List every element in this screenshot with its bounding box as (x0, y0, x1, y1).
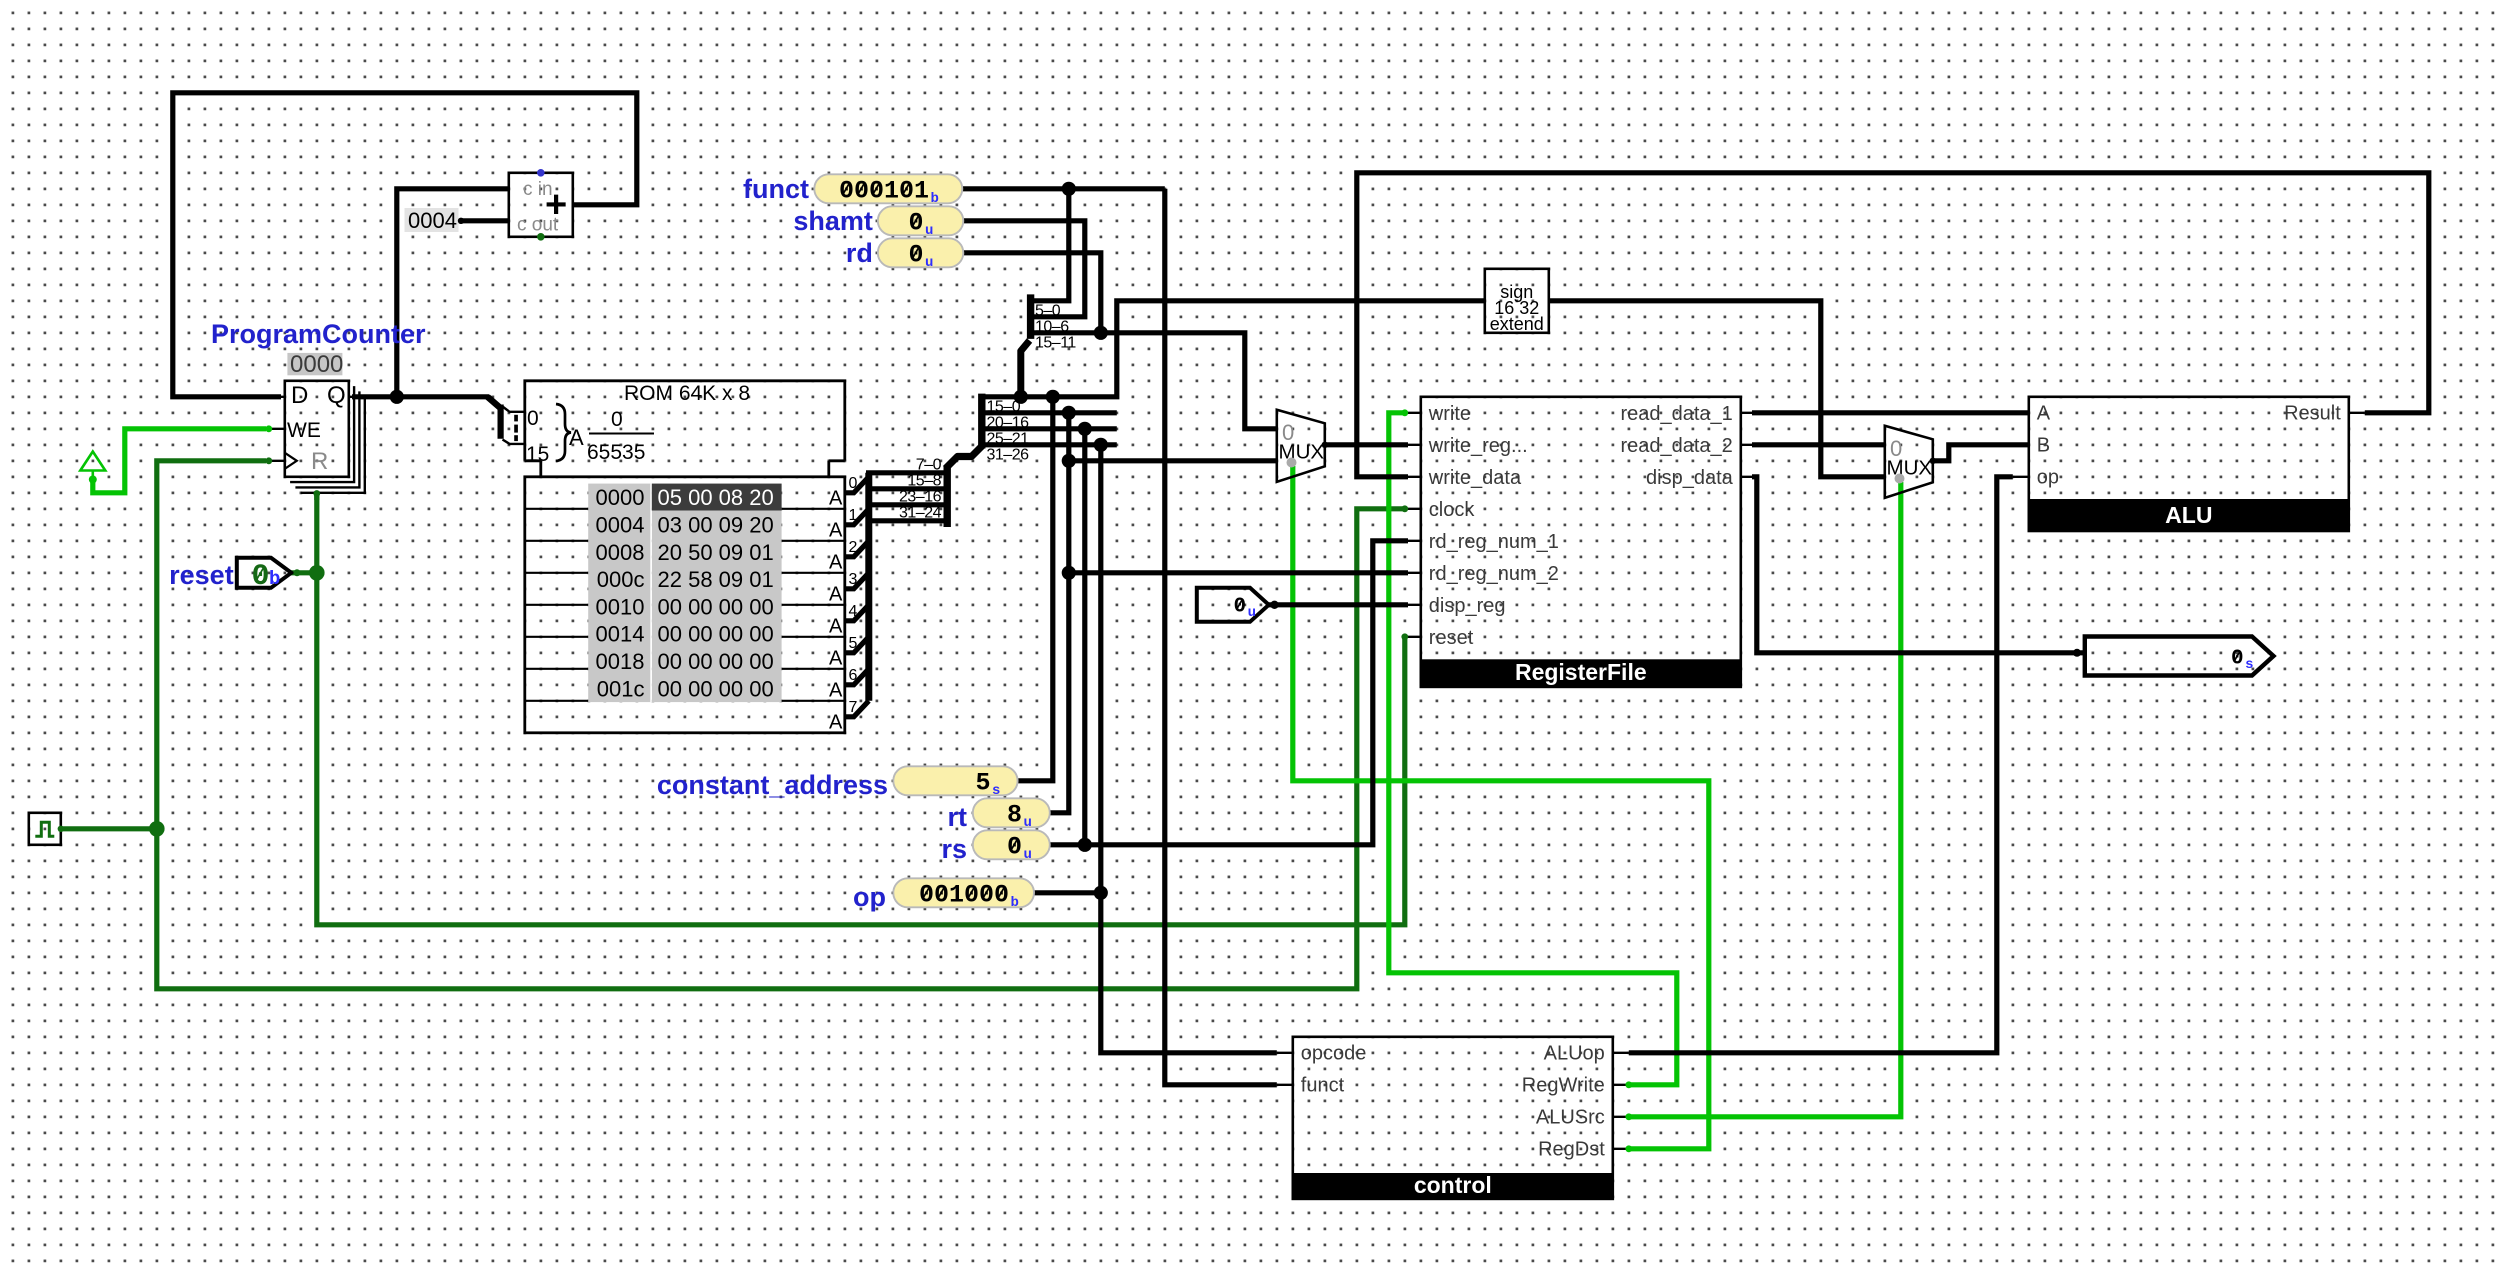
wire: read_data_1 to ALU A (1752, 410, 2029, 415)
junction: rs row (1078, 422, 1092, 436)
wire: splitter2 row 31-26 stub (984, 442, 1117, 447)
wire: control RegWrite to RegisterFile write (bright green) (1389, 413, 1677, 1085)
svg-text:00 00 00 00: 00 00 00 00 (658, 622, 774, 647)
svg-text:b: b (269, 568, 280, 590)
svg-text:5: 5 (976, 768, 991, 797)
ROM output taps (845, 477, 869, 493)
byte lane lines to combiner (866, 470, 944, 475)
svg-text:03 00 09 20: 03 00 09 20 (658, 513, 774, 538)
wire: reset net - reset input to PC bottom pin and RegisterFile reset (dark green) (288, 570, 317, 575)
junction: rt to rd_reg_num_2 (1062, 566, 1076, 580)
svg-text:20–16: 20–16 (987, 414, 1030, 431)
register ProgramCounter (stacked) (301, 397, 365, 493)
svg-text:001c: 001c (597, 676, 645, 701)
PC clock pin wire from stack bottom (314, 493, 319, 500)
clock generator component (29, 813, 61, 845)
wire: funct vertical down to control funct input (1165, 189, 1277, 1085)
input 0u for disp_reg (1197, 588, 1269, 622)
ROM address input funnel (488, 397, 501, 409)
constant 0004 value tag (405, 208, 459, 232)
control component (1277, 1052, 1293, 1054)
junction: rs line (1078, 838, 1092, 852)
svg-text:u: u (925, 255, 933, 271)
wire: rs display net from row 25-21 (1046, 429, 1085, 845)
junction: op row (1094, 438, 1108, 452)
svg-text:7–0: 7–0 (916, 456, 942, 473)
ROM contents table box (525, 477, 845, 733)
svg-text:funct: funct (743, 174, 809, 204)
svg-text:0000: 0000 (596, 485, 645, 510)
wire: funct display net (imm bits 5-0) (958, 186, 1165, 191)
svg-text:7: 7 (849, 699, 858, 716)
svg-text:05 00 08 20: 05 00 08 20 (658, 485, 774, 510)
svg-text:15: 15 (526, 443, 549, 466)
svg-text:5: 5 (849, 635, 858, 652)
junction: imm16 to constant_address (1046, 390, 1060, 404)
svg-text:b: b (931, 191, 939, 207)
svg-text:A: A (2037, 403, 2051, 425)
svg-text:R: R (311, 448, 328, 475)
wire: rt field branch to MUX1 input 1 (1069, 458, 1277, 463)
ROM table memory panel (588, 484, 651, 702)
svg-text:opcode: opcode (1301, 1043, 1367, 1065)
junction: reset net at input (309, 565, 325, 581)
wire: rd field (15-11) to MUX1 input 0 (1101, 333, 1277, 429)
svg-text:0004: 0004 (408, 208, 457, 233)
svg-text:4: 4 (849, 603, 858, 620)
svg-text:read_data_2: read_data_2 (1620, 435, 1732, 457)
wire: MUX1 output to RegisterFile write_reg (1325, 442, 1408, 447)
wire: WE high supply to PC WE (bright green) (93, 429, 266, 493)
ALU component (2013, 412, 2029, 414)
svg-text:A: A (829, 552, 843, 574)
svg-text:MUX: MUX (1887, 457, 1933, 480)
svg-text:5–0: 5–0 (1035, 302, 1061, 319)
svg-text:u: u (1248, 605, 1256, 621)
junction: clock net (149, 821, 165, 837)
svg-text:u: u (1024, 847, 1032, 863)
wire: PC Q branch up to adder input a (397, 189, 509, 397)
svg-text:b: b (1011, 895, 1019, 911)
svg-text:ROM 64K x 8: ROM 64K x 8 (624, 382, 750, 405)
wire: splitter2 row 20-16 stub (984, 410, 1117, 415)
junction: imm16 to splitter1 (1014, 390, 1028, 404)
svg-text:op: op (2037, 467, 2059, 489)
svg-text:ALUSrc: ALUSrc (1536, 1107, 1605, 1129)
junction: op line (1094, 886, 1108, 900)
svg-text:0: 0 (527, 407, 539, 430)
svg-text:rt: rt (948, 802, 968, 832)
svg-text:ALUop: ALUop (1544, 1043, 1605, 1065)
svg-text:shamt: shamt (793, 206, 873, 236)
svg-text:reset: reset (169, 560, 234, 590)
bus from combiner to field splitter (946, 445, 984, 469)
svg-text:A: A (829, 712, 843, 734)
svg-text:s: s (2245, 657, 2253, 673)
svg-text:00 00 00 00: 00 00 00 00 (658, 649, 774, 674)
svg-text:A: A (829, 616, 843, 638)
svg-text:0004: 0004 (596, 513, 645, 538)
svg-text:0: 0 (849, 475, 858, 492)
wire: constant 0004 to adder input b (461, 218, 509, 223)
svg-text:65535: 65535 (587, 441, 645, 464)
wire: control ALUop to ALU op (1629, 477, 2013, 1053)
junction: rd row to MUX1 (1094, 326, 1108, 340)
svg-text:+: + (545, 184, 567, 226)
svg-text:0: 0 (909, 240, 924, 269)
wire: rs field to RegisterFile rd_reg_num_1 (1085, 541, 1408, 845)
svg-text:0000: 0000 (290, 351, 343, 378)
svg-text:15–8: 15–8 (907, 472, 941, 489)
junction: PC Q node (390, 390, 404, 404)
svg-text:write_data: write_data (1428, 467, 1522, 489)
svg-text:A: A (829, 520, 843, 542)
wire: control ALUSrc to MUX2 select (bright green) (1629, 482, 1901, 1117)
svg-text:25–21: 25–21 (987, 430, 1030, 447)
svg-text:15–0: 15–0 (987, 398, 1021, 415)
svg-text:0: 0 (252, 560, 270, 594)
svg-text:control: control (1414, 1172, 1492, 1198)
svg-text:0018: 0018 (596, 649, 645, 674)
wire: input 0u to RegisterFile disp_reg (1269, 602, 1408, 607)
wire: constant_address display net from imm16 row (1016, 397, 1053, 781)
svg-text:WE: WE (287, 419, 321, 442)
svg-text:write_reg...: write_reg... (1428, 435, 1528, 457)
wire: MUX2 output to ALU B (1933, 445, 2029, 461)
ROM 64K x 8 component body (525, 381, 845, 461)
wire: ALU Result feedback to RegisterFile write_data (1357, 173, 2429, 477)
splitter: imm16 sub-field splitter bar (1027, 294, 1034, 339)
svg-text:00 00 00 00: 00 00 00 00 (658, 676, 774, 701)
svg-text:RegDst: RegDst (1538, 1139, 1605, 1161)
svg-text:15–11: 15–11 (1035, 334, 1076, 351)
PC pin stubs (269, 396, 285, 398)
svg-text:0010: 0010 (596, 594, 645, 619)
svg-text:001000: 001000 (919, 880, 1009, 909)
svg-text:funct: funct (1301, 1075, 1345, 1097)
svg-text:rd_reg_num_1: rd_reg_num_1 (1429, 531, 1559, 553)
svg-text:MUX: MUX (1279, 441, 1325, 464)
svg-text:0: 0 (2231, 648, 2244, 671)
svg-text:10–6: 10–6 (1035, 318, 1069, 335)
svg-text:20 50 09 01: 20 50 09 01 (658, 540, 774, 565)
svg-text:1: 1 (849, 507, 858, 524)
svg-text:3: 3 (849, 571, 858, 588)
wire: PC Q output to ROM address input (352, 394, 489, 399)
wire: sign extend output to MUX2 input 1 (1549, 301, 1885, 477)
svg-text:Result: Result (2284, 403, 2341, 425)
output 0s (result display) (2085, 637, 2274, 676)
sign 16:32 extend component (1485, 269, 1549, 333)
svg-text:rs: rs (941, 834, 967, 864)
wire: imm16 bus from splitter row 15-0 up and right to sign extend input (984, 301, 1485, 397)
svg-text:s: s (992, 783, 1000, 799)
svg-text:000c: 000c (597, 567, 645, 592)
svg-text:0008: 0008 (596, 540, 645, 565)
svg-text:A: A (569, 425, 584, 450)
wire: op display net from row 31-26 down to control opcode (1029, 890, 1101, 895)
svg-text:ALU: ALU (2165, 502, 2212, 528)
wire: shamt display net (imm bits 10-6) (958, 221, 1085, 317)
wire: rd display net (imm bits 15-11) (958, 253, 1101, 333)
svg-text:disp_reg: disp_reg (1429, 595, 1506, 617)
supply arrow (logic 1 source) (80, 452, 105, 471)
wire: rt display net from row 20-16 (1046, 413, 1069, 813)
PC register value tag 0000 (287, 353, 342, 375)
svg-text:rd_reg_num_2: rd_reg_num_2 (1429, 563, 1559, 585)
svg-text:A: A (829, 680, 843, 702)
svg-text:6: 6 (849, 667, 858, 684)
svg-text:extend: extend (1490, 314, 1544, 334)
svg-text:reset: reset (1429, 627, 1474, 649)
svg-text:u: u (1024, 815, 1032, 831)
svg-text:RegWrite: RegWrite (1522, 1075, 1605, 1097)
svg-text:write: write (1428, 403, 1471, 425)
svg-text:RegisterFile: RegisterFile (1515, 659, 1647, 685)
svg-text:op: op (853, 882, 886, 912)
svg-text:ProgramCounter: ProgramCounter (211, 319, 426, 349)
adder (+) component (509, 173, 573, 237)
wire: clock net - clock source to PC R pin and RegisterFile clock (dark green) (62, 826, 157, 831)
svg-text:D: D (291, 382, 308, 409)
svg-text:u: u (925, 223, 933, 239)
splitter: byte combiner bar (944, 467, 951, 528)
RegisterFile component (1405, 412, 1421, 414)
wire: splitter row 5-0 to funct net (1030, 189, 1069, 301)
junction: rt row (1062, 406, 1076, 420)
svg-text:rd: rd (846, 238, 873, 268)
svg-text:read_data_1: read_data_1 (1620, 403, 1732, 425)
svg-text:constant_address: constant_address (657, 770, 888, 800)
svg-text:2: 2 (849, 539, 858, 556)
wire: splitter2 row 25-21 stub (984, 426, 1117, 431)
svg-text:8: 8 (1007, 800, 1022, 829)
wire: PC next-value loop (adder sum to PC D input) (173, 93, 637, 397)
svg-text:B: B (2037, 435, 2050, 457)
svg-text:A: A (829, 488, 843, 510)
svg-text:0: 0 (611, 408, 623, 431)
svg-text:31–26: 31–26 (987, 446, 1030, 463)
multiplexer MUX1 (RegDst) (1277, 410, 1325, 482)
svg-text:A: A (829, 648, 843, 670)
junction: rt to MUX1 input 1 (1062, 454, 1076, 468)
wire: read_data_2 to MUX2 input 0 (1752, 442, 1885, 447)
junction: funct line (1062, 182, 1076, 196)
wire: control RegDst to MUX1 select (bright green) (1293, 466, 1709, 1149)
splitter: instruction field splitter bar (978, 394, 985, 449)
svg-text:00 00 00 00: 00 00 00 00 (658, 594, 774, 619)
svg-text:0: 0 (1007, 832, 1022, 861)
svg-text:22 58 09 01: 22 58 09 01 (658, 567, 774, 592)
svg-text:0: 0 (909, 208, 924, 237)
svg-text:Q: Q (327, 382, 346, 409)
wire: RegisterFile disp_data to output 0s (1752, 477, 2085, 653)
svg-text:clock: clock (1429, 499, 1476, 521)
ROM selected row highlight (652, 484, 782, 511)
svg-text:0014: 0014 (596, 622, 645, 647)
wire: rt field branch to RegisterFile rd_reg_num_2 (1069, 570, 1408, 575)
svg-text:000101: 000101 (839, 176, 929, 205)
svg-text:31–24: 31–24 (899, 504, 942, 521)
svg-text:0: 0 (1234, 596, 1247, 619)
svg-text:A: A (829, 584, 843, 606)
svg-text:disp_data: disp_data (1646, 467, 1734, 489)
multiplexer MUX2 (ALUSrc) (1885, 426, 1933, 498)
svg-text:23–16: 23–16 (899, 488, 942, 505)
